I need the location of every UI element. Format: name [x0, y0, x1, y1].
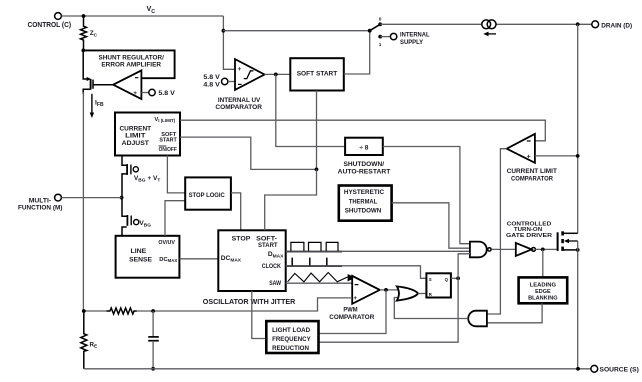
svg-text:4.8 V: 4.8 V [203, 81, 220, 88]
wire gate to op-amp output [93, 84, 113, 86]
wire CLA soft start output [180, 137, 317, 169]
svg-text:0: 0 [379, 17, 382, 23]
svg-text:INTERNAL: INTERNAL [400, 32, 430, 39]
node drain sense junction [576, 154, 580, 158]
svg-text:MULTI-: MULTI- [29, 197, 51, 204]
terminal SOURCE (S) [591, 365, 598, 372]
svg-text:+: + [238, 66, 242, 73]
wire VBG transistor to line sense [122, 227, 127, 236]
node Q output junction [456, 276, 460, 280]
svg-text:LIMIT: LIMIT [125, 133, 145, 140]
resistor feedback divider [106, 308, 137, 314]
wire drain rail down [577, 24, 579, 233]
block LEADING EDGE BLANKING [519, 277, 568, 303]
wire PWM output to light load block [319, 290, 387, 334]
capacitor C1 [152, 311, 154, 337]
svg-text:INTERNAL UV: INTERNAL UV [218, 97, 261, 104]
svg-text:SOURCE (S): SOURCE (S) [600, 366, 639, 373]
svg-text:BLANKING: BLANKING [528, 296, 558, 302]
svg-text:VI (LIMIT): VI (LIMIT) [154, 117, 175, 123]
svg-text:START: START [258, 242, 278, 249]
svg-text:COMPARATOR: COMPARATOR [511, 175, 553, 182]
svg-text:ERROR AMPLIFIER: ERROR AMPLIFIER [101, 62, 161, 69]
block LINE SENSE [116, 236, 180, 278]
wire LEB output to AND gate [487, 303, 542, 323]
node capacitor junction [151, 309, 155, 313]
node VC junction at Zc [82, 14, 86, 18]
wire VC to UV comparator plus input [223, 16, 235, 69]
wire sense line to rail [84, 310, 107, 312]
svg-text:LIGHT LOAD: LIGHT LOAD [272, 327, 310, 334]
svg-text:SAW: SAW [269, 280, 281, 287]
svg-text:DCMAX: DCMAX [159, 257, 177, 263]
terminal CONTROL (C) [55, 13, 62, 20]
svg-text:+: + [133, 90, 137, 97]
wire soft start bottom output [316, 91, 318, 170]
block CURRENT LIMIT ADJUST [115, 113, 180, 156]
svg-text:ON/OFF: ON/OFF [159, 147, 178, 153]
wire op-amp plus to 5.8V [141, 92, 148, 94]
svg-text:SHUNT REGULATOR/: SHUNT REGULATOR/ [99, 54, 164, 61]
buffer controlled turn-on gate driver [516, 243, 532, 256]
svg-text:5.8 V: 5.8 V [203, 74, 220, 81]
switch internal supply selector [368, 29, 372, 33]
terminal UV comparator minus input [222, 78, 228, 84]
wire MOSFET source stub [563, 249, 578, 251]
wire MOSFET drain stub [563, 232, 578, 234]
svg-text:1: 1 [379, 42, 382, 48]
node source rail junction [576, 367, 580, 371]
svg-text:STOP LOGIC: STOP LOGIC [189, 192, 225, 199]
op-amp current limit comparator [507, 134, 535, 163]
svg-text:÷ 8: ÷ 8 [359, 144, 368, 151]
wire comparator output to AND gate [487, 149, 507, 314]
flip-flop S-R latch [426, 273, 451, 297]
wire divide-by-8 to NAND [383, 147, 470, 244]
waveform CLOCK pulses [291, 258, 293, 266]
node VC to switch junction [222, 29, 226, 33]
wire thermal shutdown to NAND [392, 203, 470, 248]
svg-text:+: + [527, 153, 531, 160]
wire VC to switch pole [223, 30, 369, 32]
transistor VBG+VT source follower [126, 164, 128, 175]
node rail sense junction [82, 309, 86, 313]
svg-text:START: START [159, 137, 177, 143]
node gate to LEB junction [541, 248, 545, 252]
svg-text:AUTO-RESTART: AUTO-RESTART [338, 169, 391, 176]
svg-text:LINE: LINE [131, 248, 147, 255]
current IFB arrow [91, 94, 93, 114]
wire MOSFET body arrow [568, 240, 578, 242]
svg-text:COMPARATOR: COMPARATOR [215, 104, 262, 111]
block SOFT START [290, 58, 344, 90]
svg-text:5.8 V: 5.8 V [158, 90, 175, 97]
node PWM output junction [384, 288, 388, 292]
node MOSFET source junction [576, 248, 580, 252]
wire driver output to MOSFET gate [535, 248, 556, 250]
node UV output junction [274, 73, 278, 77]
svg-text:+: + [353, 295, 357, 302]
svg-text:DRAIN (D): DRAIN (D) [601, 22, 632, 29]
wire shunt regulator feedback path [83, 50, 174, 78]
wire PWM output to OR gate [380, 289, 400, 291]
gate NAND U2 [470, 242, 487, 258]
wire switch throw 1 to internal supply [380, 36, 390, 38]
svg-text:SHUTDOWN/: SHUTDOWN/ [344, 161, 385, 168]
wire VI(LIMIT) to current limit comparator [180, 120, 545, 141]
wire ON/OFF to stop logic [167, 156, 185, 193]
svg-text:SOFT START: SOFT START [297, 71, 338, 78]
op-amp PWM comparator [352, 276, 380, 304]
wire transistor chain [122, 174, 127, 216]
wire stop logic to oscillator stop [231, 193, 241, 230]
svg-text:FUNCTION (M): FUNCTION (M) [18, 204, 63, 211]
svg-text:THERMAL: THERMAL [349, 198, 377, 205]
svg-text:HYSTERETIC: HYSTERETIC [344, 189, 385, 196]
wire SAW to PWM comparator [286, 282, 353, 284]
block LIGHT LOAD FREQUENCY REDUCTION [266, 321, 318, 353]
wire PWM plus input sense line [137, 298, 352, 311]
wire source rail down [577, 241, 579, 369]
wire Q to light load block [319, 278, 459, 342]
svg-text:CLOCK: CLOCK [262, 263, 281, 270]
svg-text:OV/UV: OV/UV [158, 240, 175, 246]
op-amp shunt regulator/error amplifier [113, 70, 141, 99]
wire driver node to leading edge blanking [542, 249, 544, 277]
resistor RE [81, 311, 87, 369]
resistor ZC [81, 16, 87, 50]
transistor output MOSFET [557, 232, 559, 251]
transistor VBG source follower [126, 215, 128, 226]
block STOP LOGIC [185, 177, 231, 209]
waveform SAW sawtooth [288, 273, 348, 282]
svg-text:LEADING: LEADING [530, 283, 557, 289]
svg-text:COMPARATOR: COMPARATOR [329, 314, 374, 321]
wire multi-function to transistors [61, 197, 121, 199]
block divide-by-8 [345, 138, 383, 155]
wire source stub to rail [83, 89, 90, 94]
svg-text:SENSE: SENSE [129, 256, 153, 263]
block HYSTERETIC THERMAL SHUTDOWN [339, 186, 392, 221]
wire UV output to divide-by-8 [276, 74, 345, 146]
svg-text:CURRENT LIMIT: CURRENT LIMIT [507, 168, 557, 175]
svg-text:S: S [429, 277, 432, 282]
svg-text:PWM: PWM [343, 306, 358, 313]
wire Q to NAND input [458, 254, 470, 278]
wire control rail down [82, 92, 84, 312]
op-amp internal UV comparator U-V [235, 59, 265, 90]
svg-text:GATE DRIVER: GATE DRIVER [506, 233, 553, 239]
wire CLA to VBG+VT transistor [122, 156, 127, 166]
terminal MULTI-FUNCTION (M) [55, 194, 62, 201]
wire comparator plus to drain sense [535, 155, 578, 157]
terminal INTERNAL SUPPLY [390, 33, 396, 39]
waveform DMAX square wave [291, 242, 338, 251]
wire latch Q output [451, 277, 458, 279]
wire VC top [61, 15, 223, 17]
block OSCILLATOR WITH JITTER [218, 230, 285, 291]
node soft start net junction [315, 168, 319, 172]
wire CLOCK to latch set [286, 266, 427, 279]
svg-text:REDUCTION: REDUCTION [272, 345, 309, 352]
svg-text:ADJUST: ADJUST [122, 140, 149, 147]
svg-text:EDGE: EDGE [535, 289, 551, 295]
wire source bottom rail [84, 368, 591, 370]
wire soft start net to oscillator [265, 169, 317, 230]
wire OV/UV to stop logic [165, 201, 185, 236]
wire DMAX to NAND [286, 250, 470, 252]
wire OR output to latch reset [418, 293, 426, 295]
svg-text:SHUTDOWN: SHUTDOWN [345, 208, 382, 215]
wire drain top rail [380, 23, 482, 25]
wire AND output to OR gate [394, 298, 468, 319]
current source high-voltage supply [482, 20, 491, 29]
terminal 5.8 V reference [149, 89, 155, 95]
wire NAND output to gate driver [492, 248, 516, 250]
node control rail junction [81, 49, 85, 53]
svg-text:OSCILLATOR WITH JITTER: OSCILLATOR WITH JITTER [203, 297, 296, 306]
svg-text:STOP: STOP [232, 236, 251, 243]
svg-text:CURRENT: CURRENT [120, 125, 152, 132]
wire UV output to soft start [265, 73, 291, 75]
svg-text:SUPPLY: SUPPLY [400, 39, 424, 46]
wire to UV minus input [228, 81, 235, 83]
wire oscillator to light load block [252, 291, 266, 339]
node drain junction [576, 22, 580, 26]
node multi-function junction [120, 196, 124, 200]
svg-text:FREQUENCY: FREQUENCY [272, 336, 311, 343]
wire soft start to switch pole [344, 31, 370, 74]
terminal DRAIN (D) [592, 21, 599, 28]
node capacitor bottom junction [151, 367, 155, 371]
svg-text:CONTROL (C): CONTROL (C) [28, 22, 72, 29]
wire DCMAX to oscillator [179, 258, 218, 260]
gate AND mirrored current-limit qualifier [468, 311, 487, 327]
transistor shunt feedback MOSFET [83, 52, 87, 79]
gate OR latch reset [397, 286, 418, 300]
